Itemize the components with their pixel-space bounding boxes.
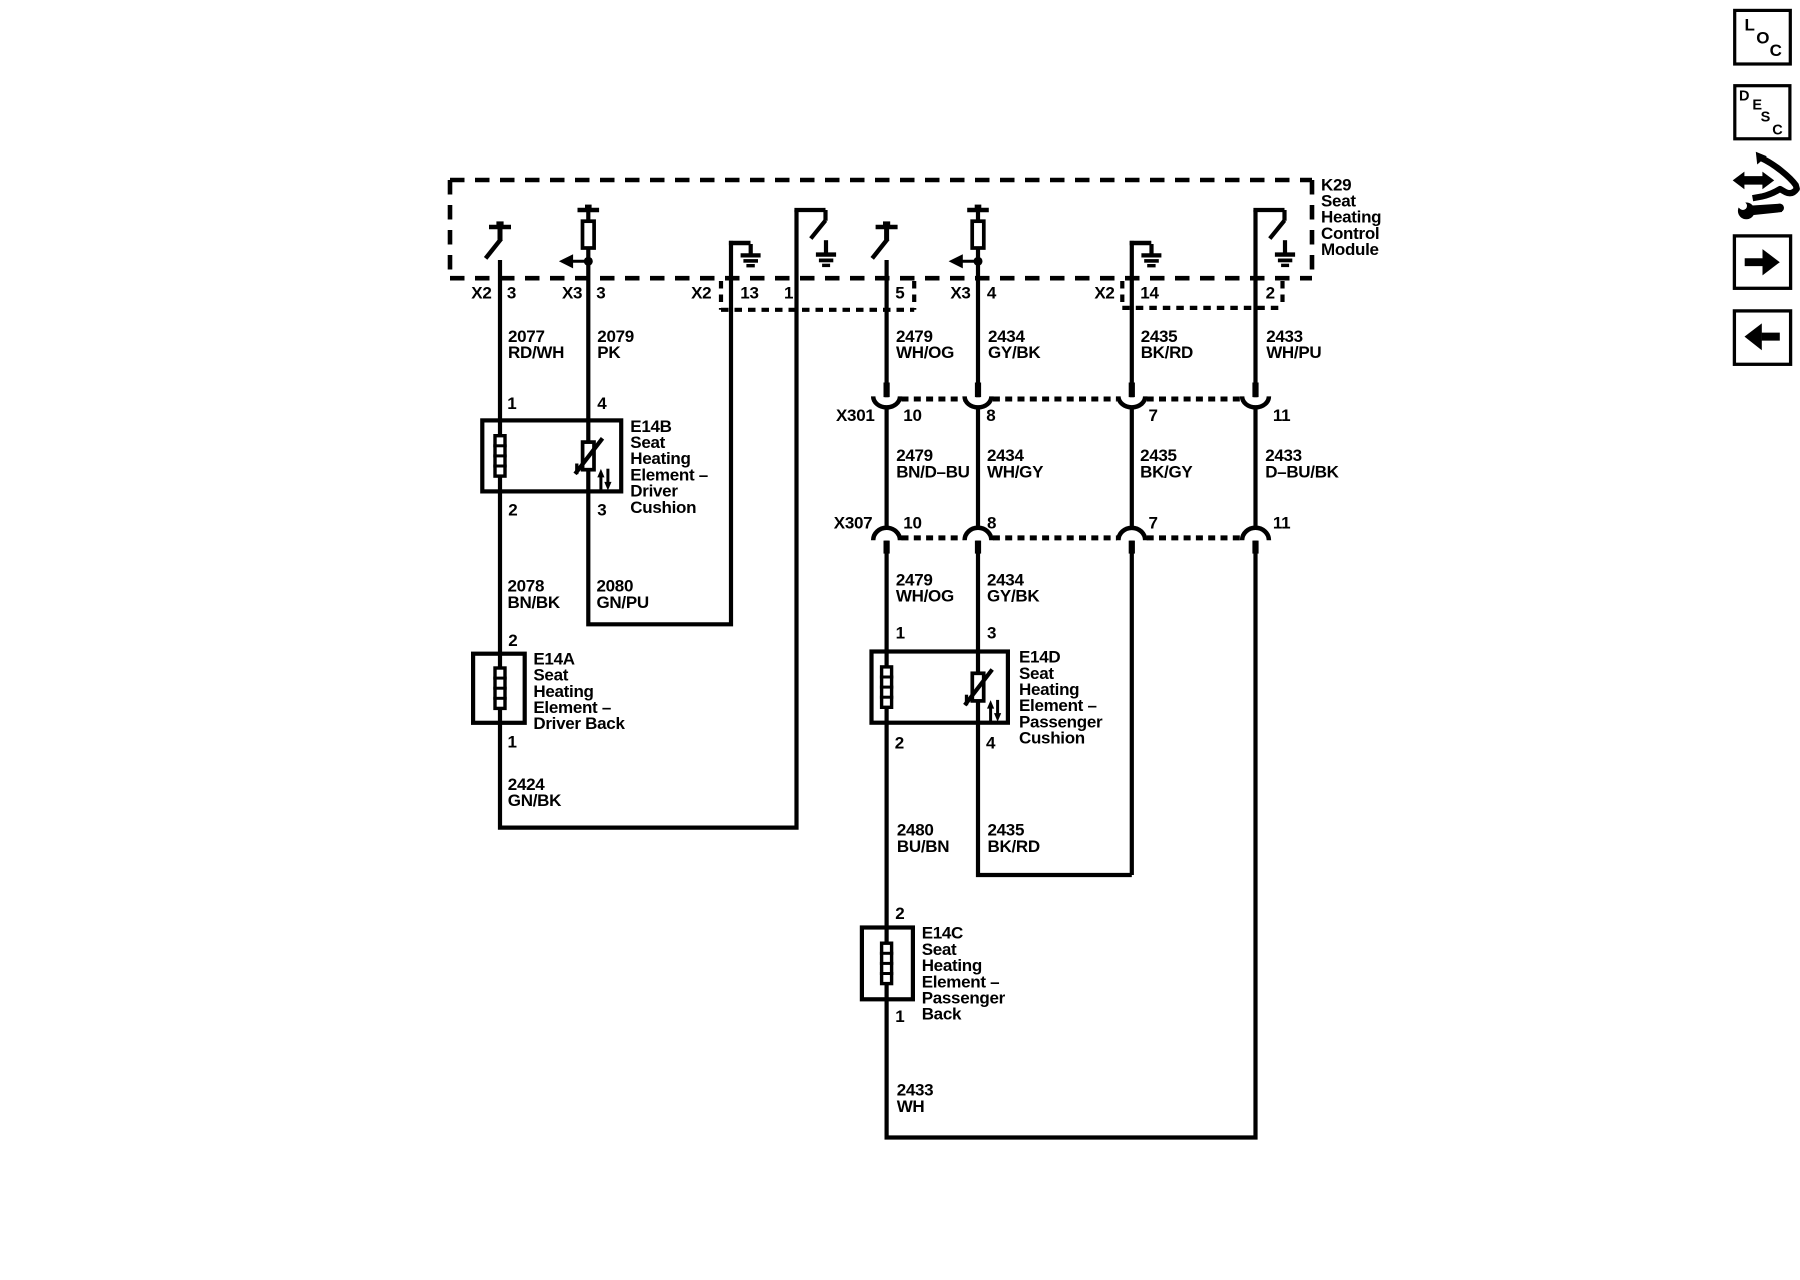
svg-text:11: 11: [1273, 406, 1290, 425]
svg-text:O: O: [1756, 29, 1769, 48]
svg-text:L: L: [1745, 16, 1755, 35]
svg-text:2: 2: [508, 501, 517, 520]
svg-text:D–BU/BK: D–BU/BK: [1265, 462, 1339, 481]
svg-text:13: 13: [740, 284, 758, 303]
svg-text:3: 3: [596, 284, 605, 303]
svg-text:4: 4: [987, 284, 997, 303]
svg-text:BK/RD: BK/RD: [988, 837, 1040, 856]
svg-text:3: 3: [987, 624, 996, 643]
svg-text:X2: X2: [1094, 284, 1114, 303]
svg-text:RD/WH: RD/WH: [508, 343, 564, 362]
svg-text:Cushion: Cushion: [1019, 729, 1085, 748]
svg-text:2: 2: [508, 631, 517, 650]
svg-text:1: 1: [508, 732, 517, 751]
svg-text:5: 5: [895, 284, 904, 303]
svg-text:7: 7: [1149, 514, 1158, 533]
svg-text:GN/PU: GN/PU: [597, 593, 649, 612]
svg-text:X2: X2: [691, 284, 711, 303]
svg-text:Cushion: Cushion: [630, 498, 696, 517]
svg-text:C: C: [1772, 123, 1783, 139]
svg-text:WH/OG: WH/OG: [896, 587, 954, 606]
svg-text:C: C: [1770, 41, 1782, 60]
svg-text:BN/BK: BN/BK: [508, 593, 561, 612]
svg-text:S: S: [1761, 110, 1771, 126]
svg-text:BK/RD: BK/RD: [1141, 343, 1193, 362]
svg-text:X3: X3: [562, 284, 582, 303]
svg-text:D: D: [1739, 89, 1749, 105]
svg-text:7: 7: [1149, 406, 1158, 425]
svg-text:3: 3: [507, 284, 516, 303]
svg-text:GY/BK: GY/BK: [988, 343, 1041, 362]
svg-text:1: 1: [784, 284, 793, 303]
svg-text:Back: Back: [922, 1005, 962, 1024]
svg-text:14: 14: [1140, 284, 1159, 303]
svg-text:WH/PU: WH/PU: [1266, 343, 1321, 362]
svg-text:X3: X3: [950, 284, 970, 303]
svg-text:WH: WH: [897, 1097, 925, 1116]
svg-text:1: 1: [895, 1007, 904, 1026]
svg-text:PK: PK: [597, 343, 621, 362]
svg-text:X2: X2: [471, 284, 491, 303]
svg-text:X301: X301: [836, 406, 875, 425]
svg-text:2: 2: [895, 733, 904, 752]
svg-text:1: 1: [507, 394, 516, 413]
svg-text:11: 11: [1273, 514, 1290, 533]
svg-text:3: 3: [597, 501, 606, 520]
svg-text:Module: Module: [1321, 240, 1379, 259]
svg-text:Driver Back: Driver Back: [533, 714, 625, 733]
svg-text:4: 4: [597, 394, 607, 413]
svg-text:8: 8: [986, 406, 995, 425]
svg-text:GY/BK: GY/BK: [987, 587, 1040, 606]
svg-text:X307: X307: [834, 514, 873, 533]
svg-text:BU/BN: BU/BN: [897, 837, 949, 856]
svg-text:4: 4: [986, 733, 996, 752]
svg-text:BK/GY: BK/GY: [1140, 462, 1193, 481]
svg-text:WH/OG: WH/OG: [896, 343, 954, 362]
svg-text:10: 10: [903, 406, 921, 425]
svg-text:BN/D–BU: BN/D–BU: [896, 462, 969, 481]
svg-text:10: 10: [903, 514, 921, 533]
svg-text:2: 2: [1266, 284, 1275, 303]
svg-text:8: 8: [987, 514, 996, 533]
svg-text:WH/GY: WH/GY: [987, 462, 1044, 481]
svg-text:2: 2: [895, 904, 904, 923]
svg-text:1: 1: [896, 624, 905, 643]
svg-text:GN/BK: GN/BK: [508, 791, 562, 810]
